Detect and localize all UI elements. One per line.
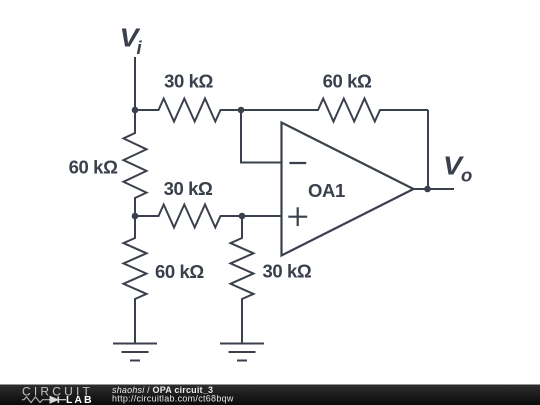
- junction node E (output / feedback): [424, 186, 431, 193]
- op-amp OA1 minus pin mark: [289, 162, 306, 164]
- wire inverting input: [241, 110, 282, 163]
- junction node B (R1 / R2 / inverting): [238, 107, 245, 114]
- ground G1: [113, 344, 157, 361]
- resistor R3 60k left vertical: [124, 110, 147, 216]
- node Vi label: [120, 23, 143, 59]
- CircuitLab logo diode: [50, 396, 66, 403]
- svg-text:i: i: [137, 37, 143, 58]
- footer bar: [0, 385, 540, 405]
- svg-text:OA1: OA1: [308, 180, 345, 201]
- svg-text:http://circuitlab.com/ct68bqw: http://circuitlab.com/ct68bqw: [112, 394, 234, 404]
- wire noninverting input: [242, 215, 282, 217]
- op-amp OA1 triangle: [282, 123, 414, 256]
- svg-text:60 kΩ: 60 kΩ: [323, 71, 372, 92]
- svg-text:LAB: LAB: [66, 394, 94, 405]
- resistor R6 30k bottom-right vertical: [231, 216, 254, 344]
- ground G2: [220, 344, 264, 361]
- junction node D (R4 / R6 / noninverting): [239, 213, 246, 220]
- op-amp OA1 plus pin mark: [288, 207, 307, 226]
- resistor R1 30k top horizontal: [135, 99, 241, 122]
- svg-text:o: o: [461, 165, 472, 186]
- svg-text:30 kΩ: 30 kΩ: [263, 261, 312, 282]
- junction node A (Vi / R1 / R3): [132, 107, 139, 114]
- svg-text:30 kΩ: 30 kΩ: [164, 178, 213, 199]
- svg-text:60 kΩ: 60 kΩ: [69, 157, 118, 178]
- wire feedback right vertical: [427, 110, 429, 189]
- resistor R2 60k feedback horizontal: [241, 99, 428, 122]
- wire Vi input stub: [134, 57, 136, 110]
- CircuitLab logo resistor zigzag: [22, 397, 50, 403]
- resistor R5 60k bottom-left vertical: [124, 216, 147, 344]
- svg-text:60 kΩ: 60 kΩ: [155, 261, 204, 282]
- svg-text:30 kΩ: 30 kΩ: [164, 71, 213, 92]
- junction node C (R3 / R4 / R5): [132, 213, 139, 220]
- wire output stub: [414, 188, 455, 190]
- node Vo label: [443, 151, 472, 186]
- resistor R4 30k middle horizontal: [135, 205, 242, 228]
